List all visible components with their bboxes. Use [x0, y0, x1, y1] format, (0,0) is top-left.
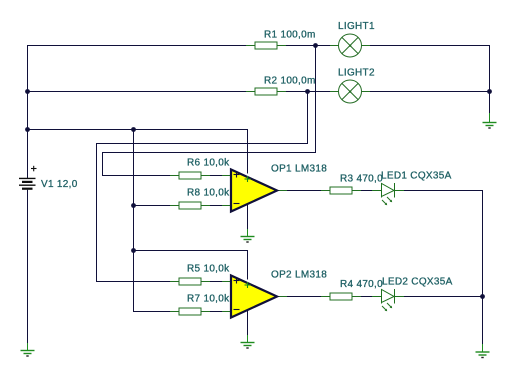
- LED1 CQX35A: [372, 171, 452, 206]
- ground OP1: [241, 229, 255, 242]
- svg-text:LIGHT1: LIGHT1: [338, 21, 375, 32]
- wire LIGHT1 sense: from node at (315,45) down and left to x=102 then down to R6 row: [103, 46, 316, 176]
- svg-text:R1 100,0m: R1 100,0m: [264, 30, 316, 41]
- ground battery minus: [21, 343, 35, 356]
- lamp LIGHT1: [330, 21, 375, 57]
- wire OP1 ground pin: [247, 205, 249, 237]
- resistor R1 100,0m: [246, 30, 316, 50]
- svg-text:LIGHT2: LIGHT2: [338, 67, 375, 78]
- wire branch to R8 (OP1 inverting input): [134, 205, 180, 207]
- wire OP1 output row y=190 to right LED column: [277, 191, 483, 353]
- wire second rail y=91 battery node to right column: [28, 91, 490, 93]
- svg-text:LED1 CQX35A: LED1 CQX35A: [381, 171, 452, 182]
- wire right column to ground G4: [489, 92, 491, 123]
- wire third rail y=129 battery+ to OP1 V+ pin: [28, 130, 248, 174]
- node R2/LIGHT2 sense: [305, 89, 310, 94]
- svg-text:V1 12,0: V1 12,0: [41, 179, 78, 190]
- wire top rail y=45 from battery+ to right column: [28, 46, 490, 179]
- svg-text:R8 10,0k: R8 10,0k: [187, 188, 230, 199]
- node battery third rail: [25, 127, 30, 132]
- resistor R7 10,0k: [170, 294, 230, 316]
- node feed/R8 junction: [131, 203, 136, 208]
- wire OP2 output row y=296 to LED column node: [277, 296, 483, 298]
- battery V1 12,0: [19, 166, 78, 190]
- wire battery+ vertical feed x=133 with branches to R8 and R7: [134, 130, 180, 312]
- svg-text:R7 10,0k: R7 10,0k: [187, 294, 230, 305]
- svg-text:R3 470,0: R3 470,0: [340, 174, 383, 185]
- svg-text:OP1 LM318: OP1 LM318: [271, 164, 327, 175]
- resistor R6 10,0k: [170, 158, 230, 180]
- svg-text:R6 10,0k: R6 10,0k: [187, 158, 230, 169]
- wire OP2 ground pin: [247, 311, 249, 343]
- svg-text:R5 10,0k: R5 10,0k: [187, 264, 230, 275]
- node feed/OP2 V+ junction: [131, 248, 136, 253]
- wire R5 to OP2 + input: [201, 281, 231, 283]
- lamp LIGHT2: [330, 67, 375, 103]
- resistor R2 100,0m: [246, 76, 316, 96]
- wire R8 to OP1 - input: [201, 205, 231, 207]
- node R1/LIGHT1 sense: [313, 43, 318, 48]
- node battery second rail: [25, 89, 30, 94]
- wire R7 to OP2 - input: [201, 311, 231, 313]
- wire R6 to OP1 + input: [201, 175, 231, 177]
- ground lamps right: [483, 113, 497, 128]
- resistor R3 470,0: [321, 174, 383, 195]
- ground LED column: [476, 344, 490, 358]
- resistor R8 10,0k: [170, 188, 230, 210]
- svg-text:R2 100,0m: R2 100,0m: [264, 76, 316, 87]
- node lamps common right: [487, 89, 492, 94]
- node feed/rail3 junction: [131, 127, 136, 132]
- resistor R5 10,0k: [170, 264, 230, 286]
- wire branch to OP2 V+ pin: [134, 251, 248, 280]
- svg-text:R4 470,0: R4 470,0: [340, 279, 383, 290]
- resistor R4 470,0: [321, 279, 383, 300]
- svg-text:LED2 CQX35A: LED2 CQX35A: [382, 277, 453, 288]
- node LED column junction: [480, 294, 485, 299]
- wire battery minus to ground: [27, 190, 29, 351]
- wire LIGHT2 sense: from node at (307,91) down and left to x=96 then down to R5 row: [97, 92, 308, 282]
- ground OP2: [241, 335, 255, 348]
- svg-text:OP2 LM318: OP2 LM318: [271, 270, 327, 281]
- LED2 CQX35A: [372, 277, 453, 312]
- op-amp OP2 LM318: [222, 270, 327, 318]
- op-amp OP1 LM318: [222, 164, 327, 212]
